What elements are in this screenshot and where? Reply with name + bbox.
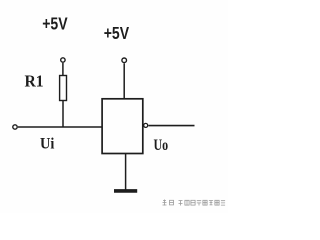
terminal circle: +5V supply terminal above box — [122, 58, 127, 63]
net label +5V (left supply) — [42, 14, 68, 34]
inverter output bubble — [144, 123, 148, 127]
resistor R1 body — [60, 76, 67, 101]
wire: output bubble to Uo terminal — [148, 125, 194, 127]
terminal circle: +5V supply terminal above R1 — [61, 58, 65, 62]
wire: input terminal to gate box left pin — [18, 126, 102, 128]
label Uo — [154, 136, 169, 154]
net label +5V (right supply) — [104, 23, 130, 43]
svg-text:R1: R1 — [25, 73, 44, 90]
label R1 — [25, 73, 44, 90]
label Ui — [40, 135, 54, 153]
ground — [114, 189, 137, 193]
wire: R1 bottom to input net junction — [62, 101, 64, 128]
wire: supply terminal to R1 top — [62, 63, 64, 76]
svg-text:Ui: Ui — [40, 135, 54, 153]
wire: box bottom pin to ground — [125, 154, 127, 191]
svg-text:Uo: Uo — [154, 136, 169, 154]
wire: supply terminal to box top pin — [123, 63, 125, 99]
gate/IC box U1 — [102, 99, 143, 154]
svg-text:+5V: +5V — [42, 14, 68, 34]
svg-text:+5V: +5V — [104, 23, 130, 43]
watermark (decorative gray text bottom-right) — [163, 200, 226, 206]
terminal circle: input Ui terminal — [13, 125, 17, 129]
